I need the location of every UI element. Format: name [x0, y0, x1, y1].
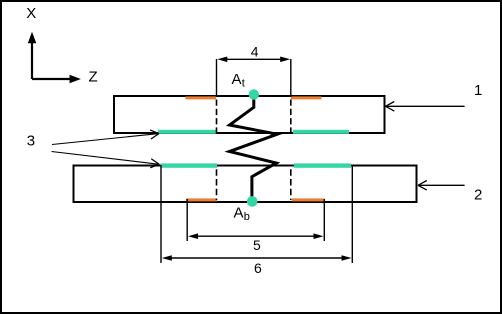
- dimension 6 left extension line: [160, 165, 162, 263]
- orange electrode segment, top plate top-left: [186, 96, 217, 99]
- svg-text:4: 4: [251, 44, 259, 60]
- svg-text:5: 5: [253, 237, 261, 253]
- dimension 5 arrow line: [188, 233, 324, 239]
- dashed line left, inside top plate: [216, 100, 218, 135]
- dashed line left, inside bottom plate: [216, 169, 218, 200]
- svg-text:Z: Z: [89, 69, 98, 86]
- svg-text:X: X: [26, 5, 36, 22]
- svg-text:A: A: [234, 204, 244, 221]
- X axis vertical arrow: [28, 32, 37, 79]
- svg-text:b: b: [244, 211, 250, 223]
- dashed line right, inside bottom plate: [290, 169, 292, 200]
- dimension 6 right extension line: [351, 165, 353, 263]
- leader arrow to plate 2: [418, 181, 465, 191]
- plate 2 (bottom plate): [74, 166, 417, 203]
- svg-text:t: t: [242, 78, 245, 90]
- dashed line right, inside top plate: [290, 100, 292, 135]
- dimension 4 right extension line (solid above plate): [290, 59, 292, 97]
- orange electrode segment, bottom plate bottom-left: [186, 198, 217, 201]
- dimension 4 left extension line (solid above plate): [216, 59, 218, 97]
- node At (teal dot): [249, 89, 259, 99]
- leader arrow to plate 1: [386, 102, 465, 112]
- dimension 4 arrow line: [217, 57, 290, 63]
- orange electrode segment, bottom plate bottom-right: [292, 198, 325, 201]
- node Ab (teal dot): [247, 196, 258, 207]
- teal electrode segment, bottom plate top-right: [294, 163, 351, 167]
- svg-text:3: 3: [27, 133, 35, 150]
- dimension 6 arrow line: [162, 255, 352, 261]
- svg-text:6: 6: [254, 260, 262, 276]
- orange electrode segment, top plate top-right: [291, 96, 322, 99]
- plate 1 (top plate): [114, 96, 385, 133]
- dimension 5 left extension line: [186, 199, 188, 241]
- teal electrode segment, top plate bottom-left: [158, 130, 216, 134]
- svg-text:A: A: [232, 71, 242, 88]
- dimension 5 right extension line: [323, 199, 325, 241]
- Z axis horizontal arrow: [32, 75, 81, 84]
- spring (zigzag): [230, 99, 278, 199]
- leader arrow from 3 to bottom plate teal: [52, 152, 160, 168]
- leader arrow from 3 to top plate teal: [52, 130, 159, 145]
- teal electrode segment, bottom plate top-left: [161, 163, 218, 167]
- svg-text:1: 1: [474, 82, 482, 99]
- svg-text:2: 2: [474, 187, 482, 204]
- teal electrode segment, top plate bottom-right: [293, 130, 349, 134]
